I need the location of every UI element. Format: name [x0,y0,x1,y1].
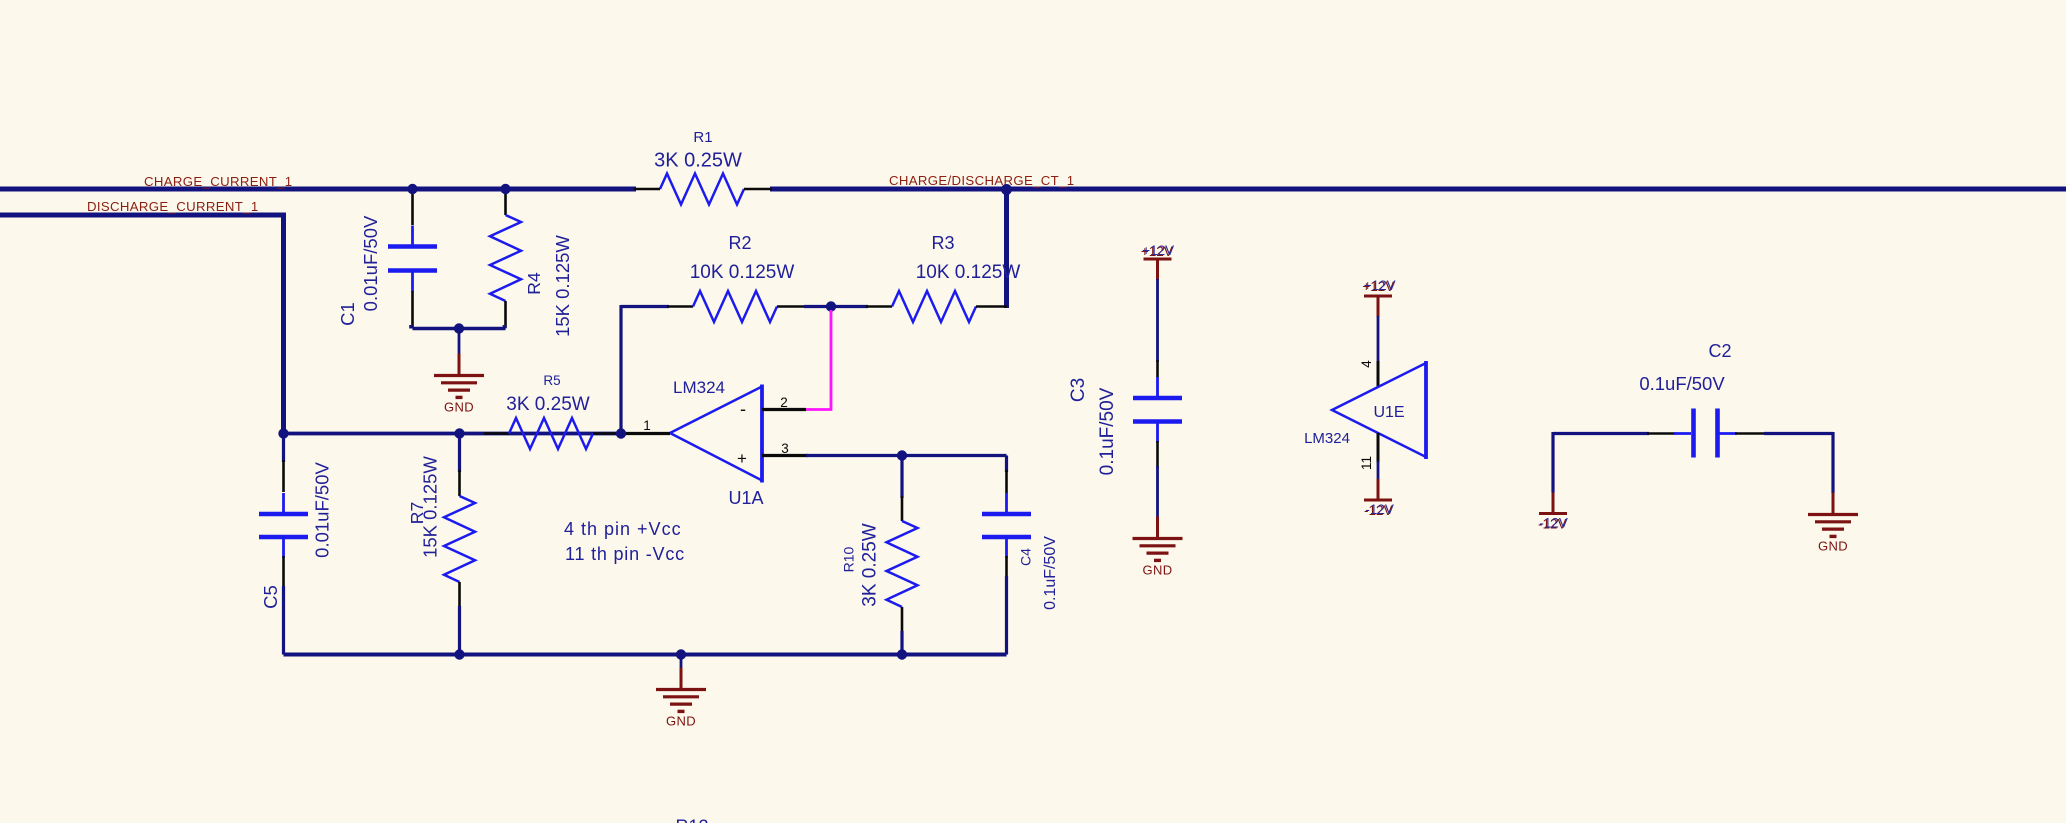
wire: R3 right pin [976,305,1007,308]
net label DISCHARGE_CURRENT_1 [87,199,259,214]
svg-text:C2: C2 [1708,341,1731,361]
svg-text:R1: R1 [693,129,712,146]
junction node CHARGE/DISCHARGE_CT_1 on bus [1001,184,1012,195]
label LM324 (U1E) [1304,430,1350,447]
op-amp U1E [1332,361,1426,459]
wire: C5 upper stub [282,435,285,492]
label C4 [1018,548,1034,566]
wire: magenta net from R2/R3 node to pin 2 [806,310,831,410]
svg-text:15K 0.125W: 15K 0.125W [552,235,573,337]
junction node A (discharge/C5) [278,428,288,438]
value label 3K 0.25W (R5) [506,394,589,415]
pin 4 wire [1377,361,1380,387]
resistor R3 [892,291,976,322]
ground symbol GND (C1/R4) [434,354,484,415]
wire: discharge vertical drop to node A [281,213,286,434]
capacitor C2 [1694,409,1718,458]
svg-text:R4: R4 [524,272,544,295]
svg-text:4: 4 [1359,360,1374,368]
junction node at C1/R4 ground wire [454,323,464,333]
wire: top bus right of R1 [770,187,2066,192]
wire: thick vertical from bus node down to R3 [1004,189,1009,308]
wire: R5 row from node A to op-amp [284,432,622,436]
svg-text:GND: GND [1818,539,1848,554]
wire: rail stub to GND symbol [680,655,683,669]
svg-text:3K 0.25W: 3K 0.25W [506,394,589,415]
svg-text:CHARGE_CURRENT_1: CHARGE_CURRENT_1 [144,174,293,189]
wire: R1 right pin [744,188,772,191]
svg-text:10K 0.125W: 10K 0.125W [690,262,795,283]
value label 3K 0.25W (R1) [654,150,742,172]
wire: DISCHARGE_CURRENT_1 horizontal [0,213,286,218]
svg-text:0.1uF/50V: 0.1uF/50V [1097,387,1118,475]
svg-text:GND: GND [444,400,474,415]
svg-text:C5: C5 [260,585,281,609]
value label 10K 0.125W (R2) [690,262,795,283]
wire: pin 4 net [1377,316,1380,363]
svg-text:R3: R3 [931,233,954,253]
pin 1 wire (output) [626,432,670,435]
svg-text:0.01uF/50V: 0.01uF/50V [312,462,333,558]
svg-text:2: 2 [780,395,788,410]
capacitor C4 [982,493,1031,558]
svg-text:GND: GND [666,714,696,729]
value label 0.1uF/50V (C3) [1097,387,1118,475]
power label +12V (U1E) [1362,278,1395,294]
svg-text:C1: C1 [337,302,358,326]
wire: R3 left pin [866,305,892,308]
wire: R4 lower pin stub [504,301,507,328]
value label 0.1uF/50V (C4) [1042,536,1059,610]
value label 0.1uF/50V (C2) [1639,373,1725,394]
resistor R5 [509,418,593,449]
junction node rail GND [676,649,686,659]
junction node R7 bottom [454,649,464,659]
wire: node to R3 [831,305,868,308]
label C3 [1068,378,1089,402]
op-amp U1A [670,385,762,483]
resistor R7 [444,496,475,582]
wire: R4 pin stub from bus [504,191,507,215]
wire: R1 left pin [634,188,660,191]
power label -12V (C2) [1538,516,1568,532]
svg-text:1: 1 [643,418,651,433]
wire: C2 right drop to GND [1831,432,1834,493]
value label 0.01uF/50V (C5) [312,462,333,558]
wire: inverting feedback vertical (R2 left) [619,305,622,433]
pin 11 wire [1377,433,1380,463]
label C5 [260,585,281,609]
svg-text:0.1uF/50V: 0.1uF/50V [1042,536,1059,610]
power symbol -12V (C2) [1539,493,1567,514]
wire: pin 3 net to R10/C4 [806,454,1007,457]
wire: bottom of C1/R4 to ground junction [411,325,506,329]
wire: pin 11 net [1377,461,1380,480]
wire: C5 lower stub [282,556,285,655]
power symbol +12V (U1E) [1364,296,1392,317]
wire: C1 lower pin stub [411,291,414,327]
svg-text:U1E: U1E [1373,404,1404,421]
wire: bottom ground rail [284,653,1007,657]
power label +12V (C3) [1141,243,1174,259]
pin number 1 [643,418,651,433]
resistor R1 [660,174,744,205]
label R5 [543,373,560,388]
label R12 (cut off at bottom) [675,817,708,823]
svg-text:U1A: U1A [728,488,763,508]
svg-text:0.01uF/50V: 0.01uF/50V [360,215,381,311]
svg-text:LM324: LM324 [673,378,725,397]
power symbol -12V (U1E) [1364,479,1392,500]
wire: R5 left pin [484,432,509,435]
svg-text:C3: C3 [1068,378,1089,402]
resistor R2 [693,291,777,322]
junction node R7 top [454,428,464,438]
label LM324 (U1A) [673,378,725,397]
wire: R10 lower stub [901,607,904,655]
svg-text:R12: R12 [675,817,708,823]
wire: +12V to C3 [1156,279,1159,377]
label R1 [693,129,712,146]
pin number 11 [1359,456,1374,470]
svg-text:-12V: -12V [1539,516,1568,531]
label R3 [931,233,954,253]
svg-text:+12V: +12V [1364,278,1396,293]
power label -12V (U1E) [1364,502,1394,518]
label C2 [1708,341,1731,361]
svg-text:R10: R10 [841,546,857,572]
resistor R10 [887,521,918,607]
pin number 3 [781,441,789,456]
wire: C3 to GND [1156,441,1159,517]
resistor R4 [490,215,521,301]
capacitor C5 [259,493,308,558]
junction node between R2 and R3 [826,301,836,311]
label R2 [728,233,751,253]
svg-text:15K 0.125W: 15K 0.125W [420,456,441,558]
wire: corner to R2 [621,305,669,308]
note: 11 th pin -Vcc [565,544,685,564]
wire: top bus CHARGE_CURRENT_1 / CHARGE/DISCHARGE_CT_1 [0,187,636,192]
junction node C1 on bus [407,184,417,194]
value label 3K 0.25W (R10) [860,523,881,606]
wire: R2 left pin [667,305,693,308]
wire: R7 upper stub [458,435,461,496]
svg-text:R2: R2 [728,233,751,253]
value label 15K 0.125W (R4) [552,235,573,337]
svg-text:11 th pin -Vcc: 11 th pin -Vcc [565,544,685,564]
pin number 2 [780,395,788,410]
op-amp plus sign [737,449,747,468]
capacitor C1 [388,226,437,292]
ground symbol GND (rail) [656,668,706,729]
net label CHARGE/DISCHARGE_CT_1 [889,173,1074,188]
op-amp minus sign [740,399,746,419]
label U1A [728,488,763,508]
value label 10K 0.125W (R3) [916,262,1021,283]
svg-text:CHARGE/DISCHARGE_CT_1: CHARGE/DISCHARGE_CT_1 [889,173,1074,188]
svg-text:GND: GND [1142,563,1172,578]
net label CHARGE_CURRENT_1 [144,174,293,189]
wire: R10 upper stub [900,457,903,521]
svg-text:3K 0.25W: 3K 0.25W [654,150,742,172]
ground symbol GND (C3) [1133,517,1183,578]
svg-text:0.1uF/50V: 0.1uF/50V [1639,373,1725,394]
svg-text:-12V: -12V [1365,502,1394,517]
svg-text:C4: C4 [1018,548,1034,566]
wire: C4 lower stub to rail [1005,556,1008,655]
wire: C2 left drop to -12V [1551,432,1554,493]
junction node at op-amp pin 1 [616,428,626,438]
wire: R2 right pin [777,305,806,308]
wire: C2 right net [1720,432,1834,435]
power symbol +12V (C3) [1144,259,1172,280]
pin 2 wire (inverting) [762,408,806,411]
pin number 4 [1359,360,1374,368]
wire: C4 branch down [1005,456,1008,494]
value label 15K 0.125W (R7) [420,456,441,558]
svg-text:R5: R5 [543,373,560,388]
label U1E [1373,404,1404,421]
svg-text:LM324: LM324 [1304,430,1350,447]
label C1 [337,302,358,326]
label R4 [524,272,544,295]
capacitor C3 [1133,377,1182,443]
junction node R10 bottom [897,649,907,659]
wire: R7 lower stub [458,582,461,655]
svg-text:3: 3 [781,441,789,456]
svg-text:4 th pin +Vcc: 4 th pin +Vcc [564,519,682,539]
label R10 [841,546,857,572]
svg-text:10K 0.125W: 10K 0.125W [916,262,1021,283]
svg-text:+12V: +12V [1142,243,1174,258]
junction node R10 top [897,450,907,460]
svg-text:DISCHARGE_CURRENT_1: DISCHARGE_CURRENT_1 [87,199,259,214]
svg-text:-: - [740,399,746,419]
svg-text:+: + [737,449,747,468]
svg-text:3K 0.25W: 3K 0.25W [860,523,881,606]
wire: C2 left net [1553,432,1691,435]
pin 3 wire (non-inverting) [762,454,808,457]
junction node R4 on bus [500,184,510,194]
wire: C1 pin stub from bus [411,191,414,225]
wire: stub to GND symbol [458,329,461,354]
note: 4 th pin +Vcc [564,519,682,539]
svg-text:11: 11 [1359,456,1374,470]
label R7 [407,502,427,524]
wire: R2 to junction node [804,305,831,308]
value label 0.01uF/50V (C1) [360,215,381,311]
ground symbol GND (C2) [1808,493,1858,554]
wire: R5 right pin [593,432,617,435]
